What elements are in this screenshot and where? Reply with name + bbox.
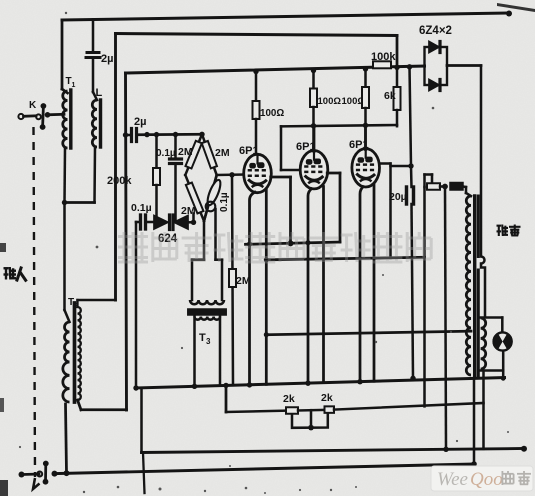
svg-text:K: K <box>29 100 37 111</box>
svg-text:2k: 2k <box>321 392 333 404</box>
svg-text:0.1µ: 0.1µ <box>131 202 152 214</box>
svg-text:L: L <box>96 87 103 99</box>
svg-text:2µ: 2µ <box>134 116 146 128</box>
svg-text:200k: 200k <box>107 175 132 187</box>
svg-text:100k: 100k <box>371 51 396 63</box>
svg-text:2k: 2k <box>283 393 295 405</box>
svg-text:Qoo: Qoo <box>470 469 503 490</box>
svg-text:100Ω: 100Ω <box>318 96 342 107</box>
svg-text:6P1: 6P1 <box>239 145 259 157</box>
svg-text:6Z4×2: 6Z4×2 <box>419 25 452 37</box>
svg-text:3: 3 <box>206 337 211 346</box>
svg-text:2M: 2M <box>181 205 196 217</box>
svg-text:T: T <box>199 332 206 344</box>
svg-text:Wee: Wee <box>437 469 468 490</box>
svg-text:0.1µ: 0.1µ <box>219 192 230 212</box>
svg-text:2M: 2M <box>215 147 230 159</box>
svg-text:100Ω: 100Ω <box>260 108 284 119</box>
svg-text:6k: 6k <box>384 90 396 102</box>
svg-text:1: 1 <box>72 82 76 89</box>
svg-text:0.1µ: 0.1µ <box>156 148 176 159</box>
svg-text:2µ: 2µ <box>101 53 113 65</box>
svg-text:2M: 2M <box>178 146 193 158</box>
